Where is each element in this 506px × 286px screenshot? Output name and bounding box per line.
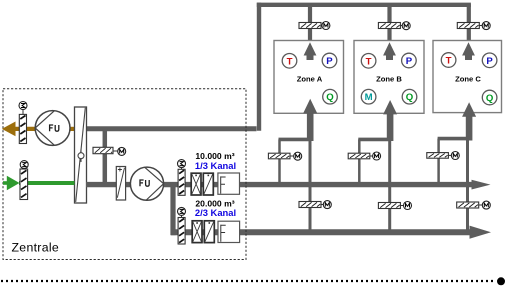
svg-text:Q: Q xyxy=(326,92,334,103)
value label: 10.000 m3 xyxy=(195,151,234,161)
svg-text:T: T xyxy=(287,56,293,67)
silencer: 2/3-duct unit 2 (slash box) xyxy=(204,221,214,243)
label: Zone B xyxy=(376,75,402,84)
damper: outside air damper xyxy=(20,169,28,200)
controller: 2/3-duct flow controller box F xyxy=(218,221,240,242)
svg-text:T: T xyxy=(446,56,452,67)
motor M: 1/3-duct damper actuator xyxy=(178,160,186,170)
sensor T: zone A temperature sensor xyxy=(282,54,297,69)
wire: zone B exhaust riser xyxy=(387,4,391,41)
damper: zone C 1/3-branch damper xyxy=(427,153,449,159)
value label: 20.000 m3 xyxy=(195,199,234,209)
duct: 2/3 Kanal supply duct with arrow xyxy=(171,226,491,239)
svg-text:Zentrale: Zentrale xyxy=(12,241,60,255)
sensor Q: zone B air quality sensor xyxy=(402,89,417,104)
damper: 1/3-duct inlet damper xyxy=(178,169,185,195)
outside air arrow (Aussenluft, green) xyxy=(3,176,75,190)
damper: zone A 2/3-branch damper xyxy=(299,202,321,208)
exhaust air arrow (Fortluft, brown) xyxy=(2,122,75,137)
svg-text:T: T xyxy=(366,56,372,67)
wire: zone C 2/3-duct riser xyxy=(466,139,469,231)
heat exchanger: rotary heat recovery wheel xyxy=(75,107,87,203)
node: supply T-junction to 2/3 duct xyxy=(170,182,175,235)
duct: 1/3 Kanal supply duct with arrow xyxy=(164,180,491,190)
zone B supply arrow xyxy=(383,100,397,141)
damper: zone C exhaust damper xyxy=(457,23,479,29)
sensor P: zone A pressure sensor xyxy=(322,53,337,68)
damper: zone B 1/3-branch damper xyxy=(348,153,370,159)
svg-text:P: P xyxy=(406,56,413,67)
sensor P: zone B pressure sensor xyxy=(402,53,417,68)
motor M: zone C 2/3-branch actuator xyxy=(479,201,491,209)
zone A exhaust outlet arrow xyxy=(304,42,317,60)
damper: 2/3-duct inlet damper xyxy=(178,218,185,245)
wire: zone C exhaust riser xyxy=(467,4,471,41)
silencer: 1/3-duct unit 1 (X box) xyxy=(191,173,201,195)
damper: zone A 1/3-branch damper xyxy=(268,153,290,159)
wire: zone A 2/3-duct riser xyxy=(309,140,312,231)
wire: zone C 1/3-duct branch xyxy=(437,139,440,183)
fan U2: supply fan FU xyxy=(130,167,163,201)
motor M: zone A 1/3-branch actuator xyxy=(290,152,302,160)
wire: exhaust duct to heat exchanger xyxy=(86,126,257,131)
sensor Q: zone C air quality sensor xyxy=(482,90,497,105)
svg-text:Zone A: Zone A xyxy=(297,75,323,84)
damper: recirculation bypass damper xyxy=(93,147,113,153)
heater: supply air heater (+) xyxy=(116,167,125,201)
wire: zone B 1/3-duct branch xyxy=(358,139,361,183)
zone A box xyxy=(274,41,344,114)
damper: zone B 2/3-branch damper xyxy=(378,203,400,209)
label: Zone C xyxy=(455,75,481,84)
node: zone A supply junction connector xyxy=(279,138,311,142)
motor M: zone B 1/3-branch actuator xyxy=(370,152,381,160)
sensor Q: zone A air quality sensor xyxy=(323,89,338,104)
wire: recirculation bypass duct xyxy=(103,129,108,183)
damper: zone C 2/3-branch damper xyxy=(457,202,479,208)
svg-text:Zone B: Zone B xyxy=(376,75,402,84)
damper: exhaust outlet damper xyxy=(19,114,26,143)
svg-text:Q: Q xyxy=(406,92,414,103)
zone C exhaust outlet arrow xyxy=(462,42,475,60)
motor M: 2/3-duct damper actuator xyxy=(178,207,186,217)
sensor M: zone B humidity sensor xyxy=(361,89,376,104)
sensor T: zone C temperature sensor xyxy=(441,53,456,68)
wire: zone A exhaust riser xyxy=(308,4,312,41)
label: Zentrale xyxy=(12,241,60,255)
zone B box xyxy=(354,41,424,114)
fan U1: exhaust fan FU xyxy=(35,111,70,146)
label: Zone A xyxy=(297,75,323,84)
svg-text:P: P xyxy=(326,56,333,67)
zone A supply arrow xyxy=(303,99,317,141)
Zentrale dashed enclosure xyxy=(3,89,246,260)
svg-text:Q: Q xyxy=(486,93,494,104)
wire: main exhaust collection duct (top) xyxy=(257,3,471,131)
sensor T: zone B temperature sensor xyxy=(361,54,376,69)
net label: 1/3 Kanal xyxy=(195,160,236,171)
motor M: zone A exhaust damper actuator xyxy=(321,22,330,30)
net label: 2/3 Kanal xyxy=(195,207,236,218)
zone C box xyxy=(433,41,502,113)
svg-text:Zone C: Zone C xyxy=(455,75,481,84)
svg-text:2/3 Kanal: 2/3 Kanal xyxy=(195,207,236,218)
wire: zone A 1/3-duct branch xyxy=(278,139,281,183)
wire: zone B 2/3-duct riser xyxy=(388,140,391,231)
zone B exhaust outlet arrow xyxy=(383,42,396,60)
motor M: zone B exhaust damper actuator xyxy=(400,22,410,30)
motor M: exhaust damper actuator xyxy=(19,102,27,115)
zone C supply arrow xyxy=(462,102,476,140)
wire: supply duct after heat exchanger xyxy=(86,182,131,187)
motor M: zone A 2/3-branch actuator xyxy=(321,201,331,209)
damper: zone B exhaust damper xyxy=(378,23,400,29)
sensor P: zone C pressure sensor xyxy=(482,53,497,68)
motor M: zone C 1/3-branch actuator xyxy=(448,152,459,160)
svg-text:P: P xyxy=(486,56,493,67)
node: zone C supply junction connector xyxy=(438,137,469,141)
svg-text:M: M xyxy=(365,92,373,103)
motor M: zone B 2/3-branch actuator xyxy=(400,202,411,210)
dotted baseline xyxy=(1,277,505,285)
motor M: outside air damper actuator xyxy=(20,161,28,169)
node: zone B supply junction connector xyxy=(358,138,390,142)
controller: 1/3-duct flow controller box F xyxy=(218,173,240,194)
motor M: bypass damper actuator xyxy=(113,147,126,155)
silencer: 2/3-duct unit 1 (X box) xyxy=(192,221,202,243)
silencer: 1/3-duct unit 2 (slash box) xyxy=(203,173,213,195)
damper: zone A exhaust damper xyxy=(299,23,321,29)
motor M: zone C exhaust damper actuator xyxy=(479,22,490,30)
svg-text:1/3 Kanal: 1/3 Kanal xyxy=(195,160,236,171)
